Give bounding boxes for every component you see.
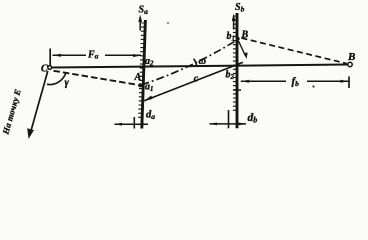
angle omega arc — [194, 59, 197, 66]
tick below B for Fb dimension — [348, 77, 350, 89]
steep arrow from B' down — [239, 41, 246, 56]
node B circle — [348, 62, 352, 66]
svg-text:Sa: Sa — [139, 5, 149, 16]
staff a arrow Sa — [139, 18, 141, 31]
dimension Fa line left part — [53, 54, 87, 56]
dashed ray C to A — [54, 71, 138, 85]
angle gamma arc at C — [47, 73, 66, 85]
dimension Fa right arrowhead — [133, 54, 142, 57]
ground b right arrowhead — [239, 123, 247, 126]
point A dot — [138, 83, 142, 87]
staff a graduation ticks — [138, 23, 145, 117]
staff b long tick — [233, 89, 241, 91]
line c from a1 to staff b — [144, 62, 243, 101]
svg-text:c: c — [194, 74, 199, 85]
svg-text:Fa: Fa — [87, 50, 99, 61]
dimension Fa left arrowhead — [52, 54, 61, 57]
dashed ray B' to B — [242, 38, 347, 64]
dimension Fb line left part — [241, 80, 286, 82]
dimension Fa line right part — [105, 54, 141, 56]
dimension Fb right arrowhead — [340, 80, 349, 83]
tick above C for Fa dimension — [49, 49, 51, 67]
arrowhead at a1 — [144, 96, 153, 102]
svg-text:ω: ω — [199, 56, 207, 67]
svg-text:B: B — [347, 51, 355, 63]
ground b left arrowhead — [209, 123, 217, 126]
svg-text:Sb: Sb — [235, 2, 245, 13]
speck below fb — [312, 85, 314, 87]
sight arrow to point E from C — [30, 71, 48, 134]
staff b ground line — [210, 123, 247, 125]
staff b rod — [236, 13, 239, 128]
svg-text:A: A — [134, 72, 142, 83]
arrowhead to point E — [27, 128, 34, 139]
dimension Fb left arrowhead — [240, 80, 249, 83]
staff b arrow Sb — [233, 17, 235, 30]
ground a right arrowhead — [141, 123, 149, 126]
node C circle — [48, 66, 52, 70]
speck top — [167, 22, 169, 24]
svg-text:γ: γ — [65, 78, 70, 89]
dimension Fb line right part — [307, 80, 349, 82]
staff a ground line — [115, 123, 149, 125]
staff b base stake — [228, 110, 230, 128]
staff a rod — [142, 20, 146, 129]
svg-text:da: da — [146, 110, 155, 121]
staff b graduation ticks — [233, 16, 236, 110]
ground a left arrowhead — [114, 123, 122, 126]
dash-dot inclined sight A to B' — [142, 40, 238, 85]
staff a base stake — [133, 117, 135, 129]
main optical axis C to B — [52, 65, 348, 68]
point B' dot — [236, 37, 240, 41]
